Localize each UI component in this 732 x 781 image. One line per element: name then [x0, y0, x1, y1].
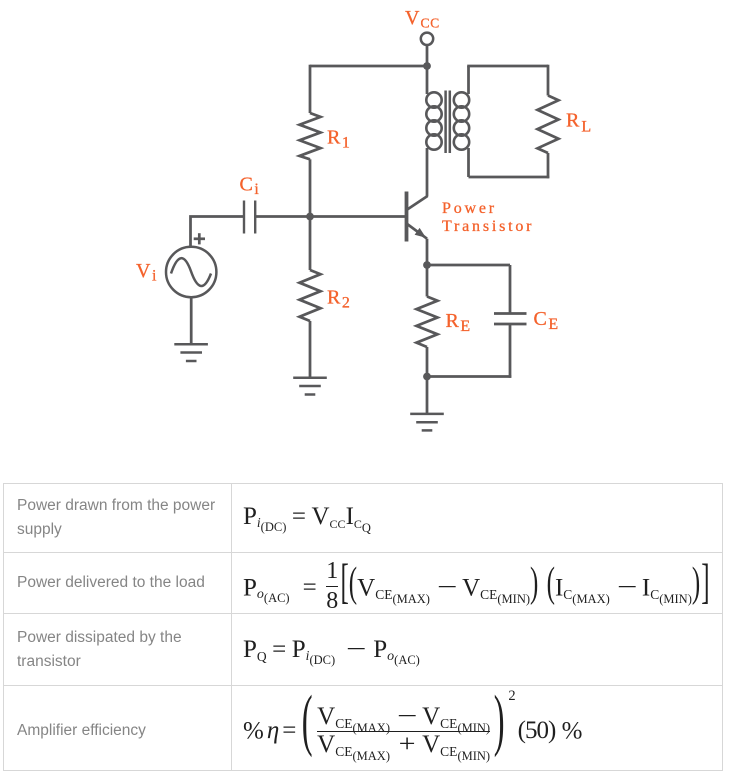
svg-text:Transistor: Transistor	[442, 218, 534, 235]
capacitor Ci	[243, 201, 245, 234]
wire RE top lead	[426, 265, 429, 297]
resistor R1	[300, 113, 321, 159]
svg-text:VCC: VCC	[405, 7, 440, 31]
wire RE bottom lead	[426, 347, 429, 377]
wire Vi bottom lead	[190, 297, 193, 344]
svg-text:RE: RE	[446, 310, 471, 335]
svg-text:RL: RL	[566, 110, 591, 136]
wire RL right top lead	[547, 65, 550, 96]
ground (RE)	[410, 413, 444, 416]
wire RL loop bottom	[469, 176, 550, 179]
wire primary bottom lead to collector	[426, 148, 429, 197]
equations table	[3, 483, 723, 771]
transistor Q1 base bar	[405, 192, 409, 242]
junction node at RE bottom	[423, 373, 431, 381]
wire base horizontal left (Vi to Ci)	[191, 217, 244, 247]
transformer primary winding	[426, 92, 441, 107]
svg-text:Vi: Vi	[136, 260, 157, 285]
svg-text:CE: CE	[534, 308, 559, 333]
wire R2 top lead	[309, 217, 312, 271]
plus sign of Vi	[194, 233, 205, 244]
svg-text:Ci: Ci	[240, 174, 260, 199]
ground (R2)	[293, 377, 327, 380]
resistor R2	[300, 270, 321, 321]
wire RL right bottom lead	[547, 153, 550, 178]
transistor emitter diagonal	[407, 224, 428, 239]
resistor RL	[538, 96, 559, 154]
source Vi circle	[166, 247, 216, 297]
transformer secondary winding	[454, 92, 469, 107]
svg-text:R1: R1	[327, 127, 350, 152]
wire CE top lead	[509, 265, 512, 314]
wire base horizontal right (Ci to base)	[256, 215, 407, 218]
ground (Vi)	[174, 343, 208, 346]
wire R2 bottom lead	[309, 321, 312, 378]
svg-text:R2: R2	[327, 287, 350, 312]
wire bottom RE node to CE	[427, 375, 511, 378]
sine wave inside Vi	[171, 258, 211, 286]
wire R1 top lead	[309, 65, 312, 113]
wire CE bottom lead	[509, 324, 512, 378]
circuit schematic	[0, 0, 732, 470]
capacitor CE	[494, 312, 527, 315]
wire Vcc to junction	[426, 45, 429, 66]
transformer core	[444, 91, 447, 154]
svg-text:Power: Power	[442, 200, 497, 217]
transistor collector diagonal	[407, 196, 428, 210]
junction node at base	[306, 213, 314, 221]
junction node at Vcc	[423, 62, 431, 70]
transistor emitter arrowhead	[415, 228, 426, 238]
resistor RE	[417, 297, 438, 348]
wire transformer primary top lead	[426, 66, 429, 94]
wire emitter node to CE top	[427, 264, 510, 267]
wire top horizontal R1-to-Vcc junction	[310, 65, 427, 68]
wire secondary top lead	[467, 66, 470, 94]
wire ground stem (RE)	[426, 377, 429, 414]
junction node at emitter	[423, 261, 431, 269]
terminal Vcc	[421, 33, 433, 45]
wire R1 bottom lead	[309, 159, 312, 216]
wire secondary bottom lead	[467, 148, 470, 177]
wire emitter lead	[426, 239, 429, 265]
wire RL loop top	[467, 65, 548, 68]
